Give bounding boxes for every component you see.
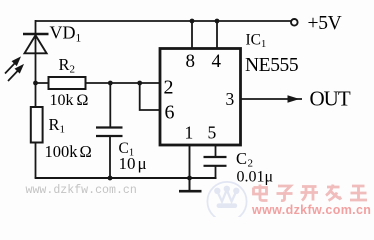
- svg-text:NE555: NE555: [245, 55, 298, 76]
- wire R1 bottom: [35, 143, 37, 179]
- light arrows: [5, 58, 23, 82]
- node pin4 top: [215, 19, 220, 24]
- svg-text:100kΩ: 100kΩ: [45, 142, 92, 161]
- watermark red char kai: [301, 187, 319, 201]
- wire R2 row to IC pin2: [36, 82, 160, 84]
- photodiode VD1: [23, 34, 49, 53]
- wire pin8: [191, 21, 193, 49]
- svg-text:8: 8: [186, 51, 196, 72]
- capacitor C2: [204, 157, 227, 166]
- resistor R2: [49, 77, 86, 89]
- wire C2 bottom: [215, 166, 217, 178]
- wire pin4: [216, 21, 218, 49]
- svg-text:3: 3: [226, 89, 235, 109]
- node junction C1: [108, 81, 113, 86]
- wire pin3 OUT: [241, 98, 303, 100]
- watermark red char zi: [277, 186, 293, 201]
- svg-text:+5V: +5V: [308, 13, 342, 34]
- wire bottom rail: [35, 177, 217, 179]
- terminal +5V circle: [291, 19, 298, 26]
- watermark red char wang: [350, 186, 367, 200]
- ground: [189, 178, 191, 190]
- wire left vertical: [35, 53, 37, 107]
- wire pin1 down: [189, 145, 191, 178]
- wire C1 bottom: [109, 136, 111, 178]
- svg-text:10kΩ: 10kΩ: [50, 92, 89, 109]
- svg-text:2: 2: [164, 77, 174, 99]
- capacitor C1: [96, 128, 123, 137]
- svg-text:10μ: 10μ: [119, 154, 147, 173]
- node junction left: [33, 81, 38, 86]
- svg-text:OUT: OUT: [310, 86, 351, 110]
- node junction pin6: [137, 81, 142, 86]
- node C1 bottom: [108, 176, 113, 181]
- watermark logo W circle: [207, 182, 246, 221]
- node pin1 rail: [187, 176, 192, 181]
- svg-text:www.dzkfw.com.cn: www.dzkfw.com.cn: [26, 184, 137, 197]
- IC IC1 NE555 box: [160, 49, 241, 146]
- wire pin6 branch: [140, 83, 160, 110]
- watermark red char fa: [326, 185, 341, 201]
- svg-text:6: 6: [165, 102, 175, 124]
- svg-text:1: 1: [185, 123, 194, 143]
- svg-text:www.dzkfw.com.cn: www.dzkfw.com.cn: [251, 203, 371, 217]
- wire C1 top: [109, 83, 111, 128]
- svg-text:5: 5: [208, 123, 217, 143]
- resistor R1: [31, 107, 43, 143]
- watermark red char dian: [254, 185, 268, 201]
- wire top rail +5V: [36, 20, 292, 22]
- svg-text:4: 4: [212, 51, 222, 72]
- wire diode cathode drop: [35, 20, 37, 54]
- wire pin5 down: [215, 145, 217, 157]
- arrowhead OUT: [288, 95, 300, 103]
- node pin8 top: [190, 19, 195, 24]
- svg-text:0.01μ: 0.01μ: [237, 168, 274, 185]
